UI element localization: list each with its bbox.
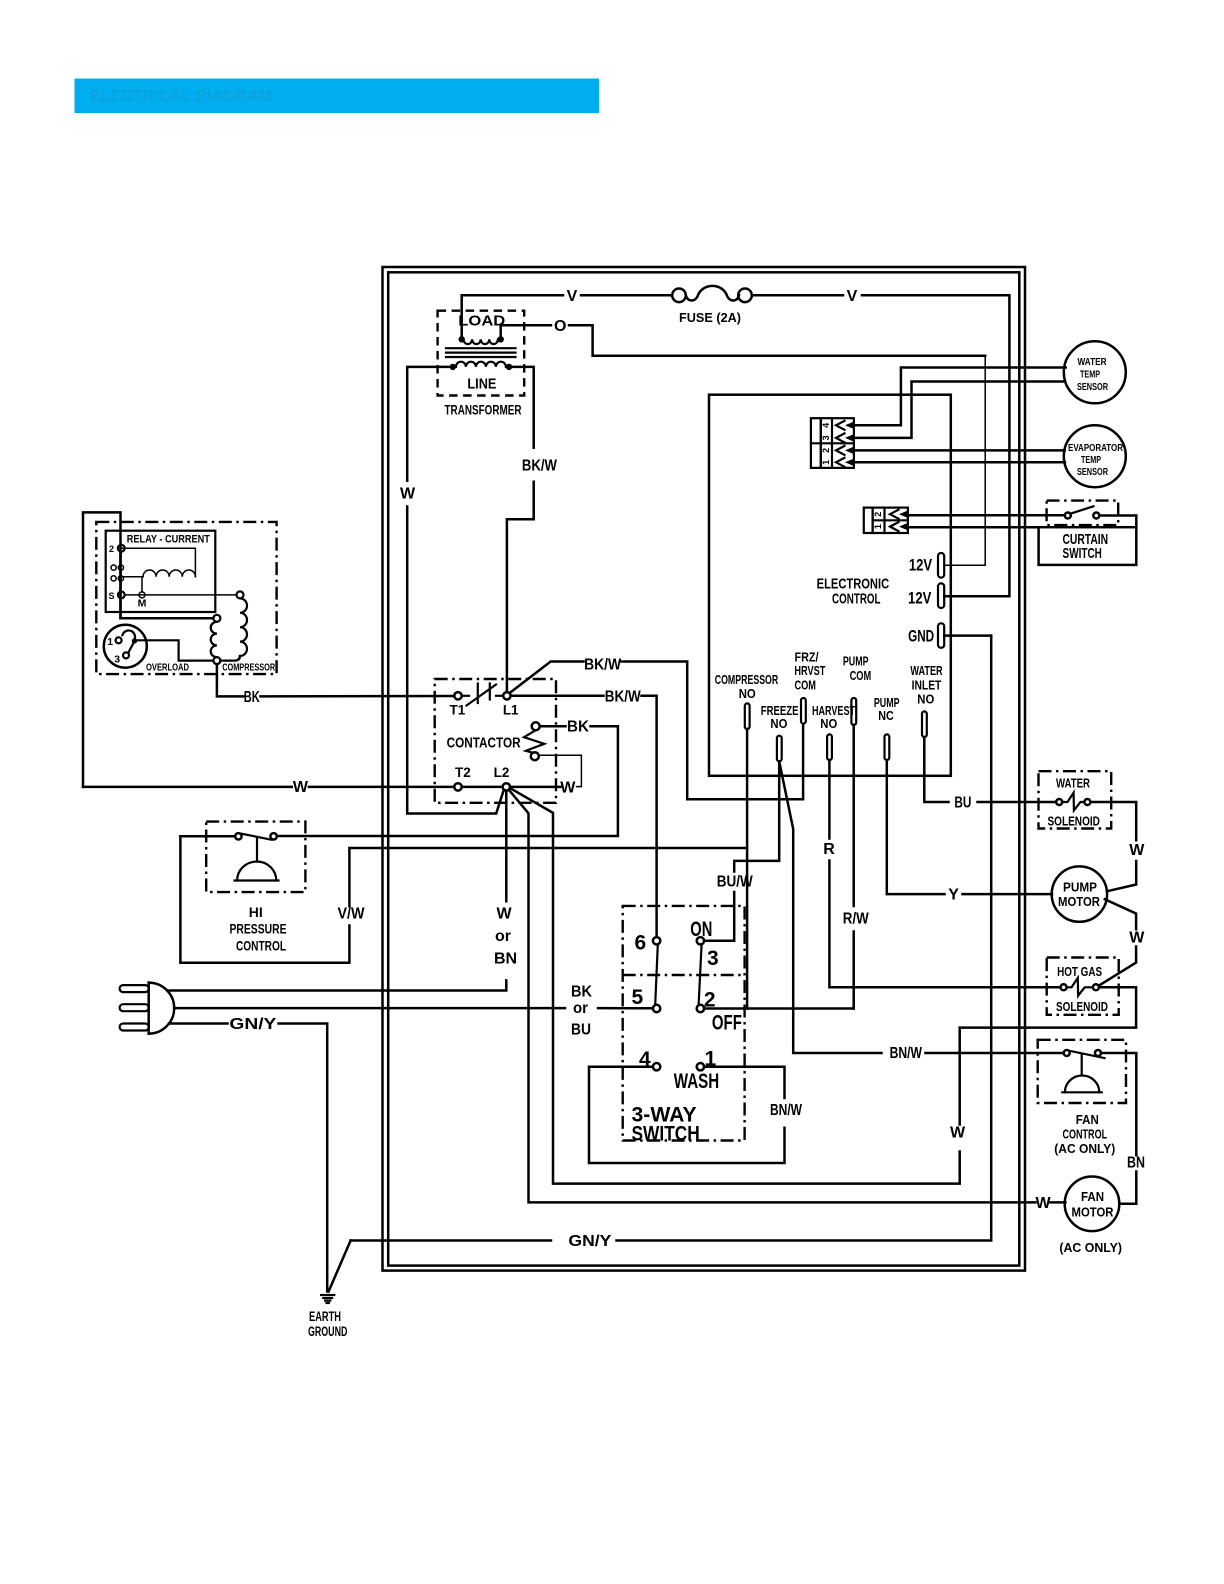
wire BK/W (transformer line to contactor L1) — [507, 367, 558, 692]
svg-text:SWITCH: SWITCH — [1063, 545, 1102, 562]
terminal 12V (lower) — [908, 583, 944, 608]
terminal PUMP NC — [874, 695, 900, 760]
wire T2 to L2 — [462, 786, 503, 789]
svg-text:TRANSFORMER: TRANSFORMER — [445, 402, 522, 417]
wire Y (pump NC to pump motor) — [887, 760, 1052, 904]
fan motor — [1059, 1177, 1122, 1256]
wire BK/W (L1 to 3-way switch pin 6) — [511, 688, 657, 937]
wire W (L2 to fan motor) — [509, 790, 1066, 1212]
svg-text:PUMP: PUMP — [843, 653, 869, 668]
hot gas solenoid — [1047, 958, 1119, 1015]
water solenoid — [1039, 771, 1112, 828]
svg-text:L2: L2 — [494, 765, 510, 780]
svg-text:3: 3 — [707, 947, 719, 970]
pin 4 arrow — [836, 421, 845, 430]
svg-text:RELAY - CURRENT: RELAY - CURRENT — [127, 534, 210, 546]
3-way switch pin 2 — [697, 1005, 704, 1012]
svg-text:FAN: FAN — [1076, 1112, 1099, 1127]
wire V/W (hi pressure control to compressor relay output) — [180, 836, 747, 962]
3-way switch pin 1 — [697, 1063, 704, 1070]
contactor terminal L2 — [503, 783, 510, 790]
svg-text:HI: HI — [249, 905, 263, 920]
svg-text:SENSOR: SENSOR — [1077, 381, 1108, 393]
svg-text:M: M — [138, 598, 147, 610]
3-way switch pin ON — [697, 937, 704, 944]
svg-text:FUSE (2A): FUSE (2A) — [679, 310, 741, 325]
svg-text:3: 3 — [821, 435, 831, 440]
wire GN/Y (electronic control GND to earth ground) — [351, 636, 992, 1250]
svg-text:V: V — [847, 288, 858, 305]
wire V (transformer load to fuse) — [462, 288, 673, 336]
svg-text:W: W — [1035, 1195, 1051, 1212]
terminal FRZ/HRVST COM — [794, 649, 825, 723]
3-way switch pin 6 — [653, 937, 660, 944]
svg-text:TEMP: TEMP — [1081, 454, 1101, 466]
pin 1 arrow — [836, 458, 845, 467]
compressor motor windings — [211, 591, 276, 673]
terminal 12V (upper) — [909, 553, 944, 578]
main enclosure outer border — [383, 267, 1026, 1271]
svg-text:W: W — [1129, 929, 1145, 946]
svg-text:COM: COM — [794, 678, 816, 693]
svg-text:MOTOR: MOTOR — [1072, 1205, 1115, 1220]
svg-text:SENSOR: SENSOR — [1077, 466, 1108, 478]
relay terminal 2 — [118, 545, 125, 552]
relay coil terminals — [111, 565, 116, 570]
3-way switch blade 6-5 — [655, 944, 658, 1004]
wire BU (water inlet NO to water solenoid) — [924, 737, 1056, 811]
svg-text:EVAPORATOR: EVAPORATOR — [1068, 442, 1123, 454]
svg-text:EARTH: EARTH — [309, 1309, 341, 1324]
svg-text:OFF: OFF — [712, 1012, 742, 1035]
svg-text:R/W: R/W — [843, 911, 870, 928]
wire pin 2 to OFF bus — [704, 1007, 854, 1010]
wire BN (fan control to fan motor) — [1101, 1053, 1145, 1204]
pump motor — [1052, 866, 1107, 921]
svg-text:WATER: WATER — [1078, 356, 1107, 368]
svg-text:COM: COM — [850, 668, 872, 683]
contactor dash-dot box — [435, 679, 556, 803]
svg-text:CONTROL: CONTROL — [1063, 1127, 1108, 1142]
svg-text:BN/W: BN/W — [890, 1045, 923, 1062]
svg-text:W: W — [400, 486, 416, 503]
svg-text:PRESSURE: PRESSURE — [230, 922, 287, 937]
svg-text:4: 4 — [821, 423, 831, 428]
wire (J2 pin 1 to curtain switch body) — [908, 526, 1039, 529]
svg-text:S: S — [108, 591, 114, 601]
svg-text:BK: BK — [571, 984, 592, 1001]
transformer secondary coil — [464, 339, 498, 344]
svg-text:SOLENOID: SOLENOID — [1056, 999, 1108, 1014]
svg-text:BN: BN — [1127, 1155, 1145, 1172]
svg-text:LINE: LINE — [467, 376, 496, 393]
svg-text:W: W — [950, 1125, 966, 1142]
header bar — [75, 79, 600, 114]
svg-text:BK/W: BK/W — [584, 657, 622, 674]
contactor coil — [447, 722, 545, 760]
pin 1 arrow — [890, 522, 899, 531]
transformer secondary terminal dots — [459, 336, 465, 342]
svg-text:or: or — [573, 1000, 588, 1017]
svg-text:GROUND: GROUND — [308, 1324, 348, 1339]
svg-text:GND: GND — [908, 627, 934, 646]
svg-text:GN/Y: GN/Y — [229, 1016, 276, 1033]
wire overload to compressor common — [137, 640, 213, 660]
terminal HARVEST NO — [812, 703, 855, 760]
svg-text:T1: T1 — [450, 703, 466, 718]
wire W (pump motor to hot gas solenoid) — [1099, 899, 1146, 986]
transformer primary terminal dots — [450, 364, 456, 370]
transformer primary coil — [456, 362, 506, 367]
compressor assembly dash-dot box — [96, 522, 276, 674]
wire W (L2 to hot gas solenoid and pump motor) — [510, 788, 1136, 1183]
hi pressure control switch — [180, 833, 278, 880]
svg-text:2: 2 — [109, 544, 114, 554]
svg-text:INLET: INLET — [912, 678, 942, 693]
contactor main contact T1-L1 — [462, 684, 504, 706]
wire (J1 pin 1 to evaporator temp sensor) — [854, 461, 1065, 464]
terminal COMPRESSOR NO — [715, 672, 779, 729]
contactor terminal T1 — [454, 692, 461, 699]
svg-text:V/W: V/W — [338, 906, 366, 923]
svg-text:Y: Y — [948, 887, 959, 904]
svg-text:ON: ON — [690, 918, 712, 941]
svg-text:OVERLOAD: OVERLOAD — [146, 661, 189, 673]
svg-text:NO: NO — [917, 692, 934, 707]
svg-text:1: 1 — [873, 524, 883, 529]
3-way switch pin 4 — [653, 1063, 660, 1070]
svg-text:NO: NO — [739, 686, 756, 701]
svg-text:L1: L1 — [503, 703, 519, 718]
svg-text:NO: NO — [820, 716, 837, 731]
overload protector — [104, 625, 189, 674]
wire W (relay loop from W bus) — [83, 512, 213, 787]
3-way switch pin 5 — [653, 1005, 660, 1012]
wire O (transformer load to 12V terminal) — [501, 318, 986, 565]
svg-text:or: or — [495, 928, 511, 945]
svg-text:HOT GAS: HOT GAS — [1057, 964, 1102, 979]
svg-text:NC: NC — [878, 708, 894, 723]
electronic control caption — [817, 575, 890, 607]
terminal FREEZE NO — [761, 703, 799, 761]
wire W (W bus to contactor T2) — [83, 779, 454, 796]
svg-text:5: 5 — [631, 986, 643, 1009]
svg-text:COMPRESSOR: COMPRESSOR — [222, 661, 275, 673]
svg-text:12V: 12V — [909, 555, 933, 574]
node M junction — [141, 577, 143, 592]
connector J2 (2-pin) — [864, 508, 908, 533]
wire (J1 pin 2 to evaporator temp sensor) — [854, 449, 1065, 452]
svg-text:WATER: WATER — [910, 663, 943, 678]
svg-text:W: W — [560, 780, 576, 797]
svg-text:MOTOR: MOTOR — [1058, 894, 1101, 909]
svg-text:CONTROL: CONTROL — [832, 591, 881, 608]
connector J1 (4-pin) — [811, 418, 854, 468]
wire BK (compressor to contactor T1) — [217, 664, 454, 706]
wire R/W (pump COM to OFF bus) — [843, 725, 870, 1009]
svg-text:1: 1 — [821, 460, 831, 465]
svg-text:T2: T2 — [455, 765, 471, 780]
svg-text:V: V — [567, 288, 578, 305]
relay S wire to compressor run winding — [125, 594, 237, 596]
wire BN/W (freeze NO / OFF bus to fan control) — [779, 761, 1063, 1062]
svg-text:3: 3 — [114, 654, 120, 666]
svg-text:BN: BN — [494, 951, 517, 968]
wire V (fuse to 12V terminal) — [752, 288, 1010, 596]
svg-text:COMPRESSOR: COMPRESSOR — [715, 672, 779, 687]
wire BK or BU (plug to 3-way switch pin 5) — [174, 984, 653, 1039]
svg-text:BK: BK — [244, 689, 260, 706]
svg-text:BU/W: BU/W — [717, 874, 754, 891]
3-way switch dashed box — [623, 906, 745, 1141]
transformer dashed box — [438, 311, 525, 396]
svg-text:FAN: FAN — [1081, 1189, 1104, 1204]
svg-text:12V: 12V — [908, 589, 932, 608]
svg-text:O: O — [554, 318, 566, 335]
svg-text:W: W — [1129, 842, 1145, 859]
hi pressure control caption — [230, 905, 287, 954]
svg-text:2: 2 — [821, 448, 831, 453]
svg-text:W: W — [496, 906, 512, 923]
svg-text:LOAD: LOAD — [458, 312, 505, 329]
wire W (water solenoid to pump motor) — [1090, 802, 1145, 891]
svg-text:GN/Y: GN/Y — [568, 1233, 611, 1250]
electronic control box — [709, 395, 951, 776]
evaporator temp sensor — [1064, 425, 1126, 487]
relay coil — [143, 570, 195, 577]
svg-text:6: 6 — [635, 931, 647, 954]
svg-text:BK: BK — [567, 718, 589, 735]
svg-text:HRVST: HRVST — [794, 663, 825, 678]
contactor terminal T2 — [454, 783, 461, 790]
svg-text:TEMP: TEMP — [1080, 369, 1100, 381]
hi pressure control dash-dot box — [206, 822, 305, 893]
svg-text:1: 1 — [107, 636, 113, 648]
wire BU/W (freeze NO to 3-way switch ON pin) — [704, 761, 779, 941]
wire W (contactor coil to L2) — [510, 755, 581, 796]
svg-text:BU: BU — [954, 794, 971, 811]
wire W or BN (L2 to plug) — [167, 791, 517, 991]
earth ground symbol — [308, 1241, 351, 1340]
svg-text:BK/W: BK/W — [522, 458, 558, 475]
terminal WATER INLET NO — [910, 663, 943, 737]
wire (J1 pin 4 to water temp sensor) — [854, 368, 1066, 426]
3-way switch blade ON-2 — [699, 944, 702, 1004]
svg-text:SWITCH: SWITCH — [632, 1123, 700, 1146]
svg-text:WASH: WASH — [674, 1070, 719, 1093]
pin 2 arrow — [836, 446, 845, 455]
svg-text:BU: BU — [571, 1022, 591, 1039]
svg-text:W: W — [293, 779, 309, 796]
relay terminal S — [118, 592, 125, 599]
fan control — [1038, 1040, 1126, 1156]
fuse F1 (2A) — [672, 286, 752, 325]
contactor terminal L1 — [503, 692, 510, 699]
svg-text:PUMP: PUMP — [1063, 879, 1097, 894]
svg-text:BK/W: BK/W — [605, 688, 642, 705]
svg-text:SOLENOID: SOLENOID — [1047, 813, 1100, 828]
wire BK (contactor coil to hi pressure control) — [277, 718, 618, 836]
wire BN/W (pin 1 to pin 4 loop) — [589, 1067, 803, 1163]
svg-text:R: R — [823, 841, 835, 858]
wire R (harvest NO to hot gas solenoid) — [823, 760, 1060, 987]
wire (relay bus down to compressor start winding) — [119, 552, 122, 619]
svg-text:CONTROL: CONTROL — [236, 939, 286, 954]
transformer T1 assembly — [438, 311, 525, 418]
relay R1 current relay — [106, 531, 237, 612]
svg-text:ELECTRICAL DIAGRAM: ELECTRICAL DIAGRAM — [90, 88, 272, 105]
relay coil feed wire — [121, 548, 195, 577]
transformer core — [446, 347, 516, 349]
water temp sensor — [1064, 341, 1126, 403]
power plug P1 — [120, 983, 175, 1034]
3-way switch internal dashed divider — [623, 974, 745, 976]
svg-text:WATER: WATER — [1056, 776, 1090, 791]
pin 2 arrow — [890, 510, 899, 519]
curtain switch — [1039, 501, 1137, 565]
svg-text:CONTACTOR: CONTACTOR — [447, 734, 521, 751]
svg-text:(AC ONLY): (AC ONLY) — [1054, 1141, 1115, 1156]
terminal PUMP COM — [843, 653, 871, 725]
wire (compressor NO to 3-way switch OFF bus) — [746, 729, 749, 1009]
wire GN/Y (plug to earth ground) — [169, 1016, 327, 1292]
wire (J2 pin 2 to curtain switch) — [908, 514, 1065, 517]
svg-text:NO: NO — [770, 716, 787, 731]
svg-text:2: 2 — [873, 512, 883, 517]
terminal GND — [908, 623, 991, 648]
wire BK/W (L1 to FRZ/HRVST COM) — [510, 657, 803, 800]
wire W (transformer line to node at L2) — [400, 367, 504, 814]
svg-text:BN/W: BN/W — [770, 1102, 803, 1119]
wire (J1 pin 3 to water temp sensor) — [854, 382, 1065, 438]
svg-text:(AC ONLY): (AC ONLY) — [1059, 1240, 1122, 1255]
main enclosure inner border — [388, 272, 1019, 1265]
pin 3 arrow — [836, 433, 845, 442]
